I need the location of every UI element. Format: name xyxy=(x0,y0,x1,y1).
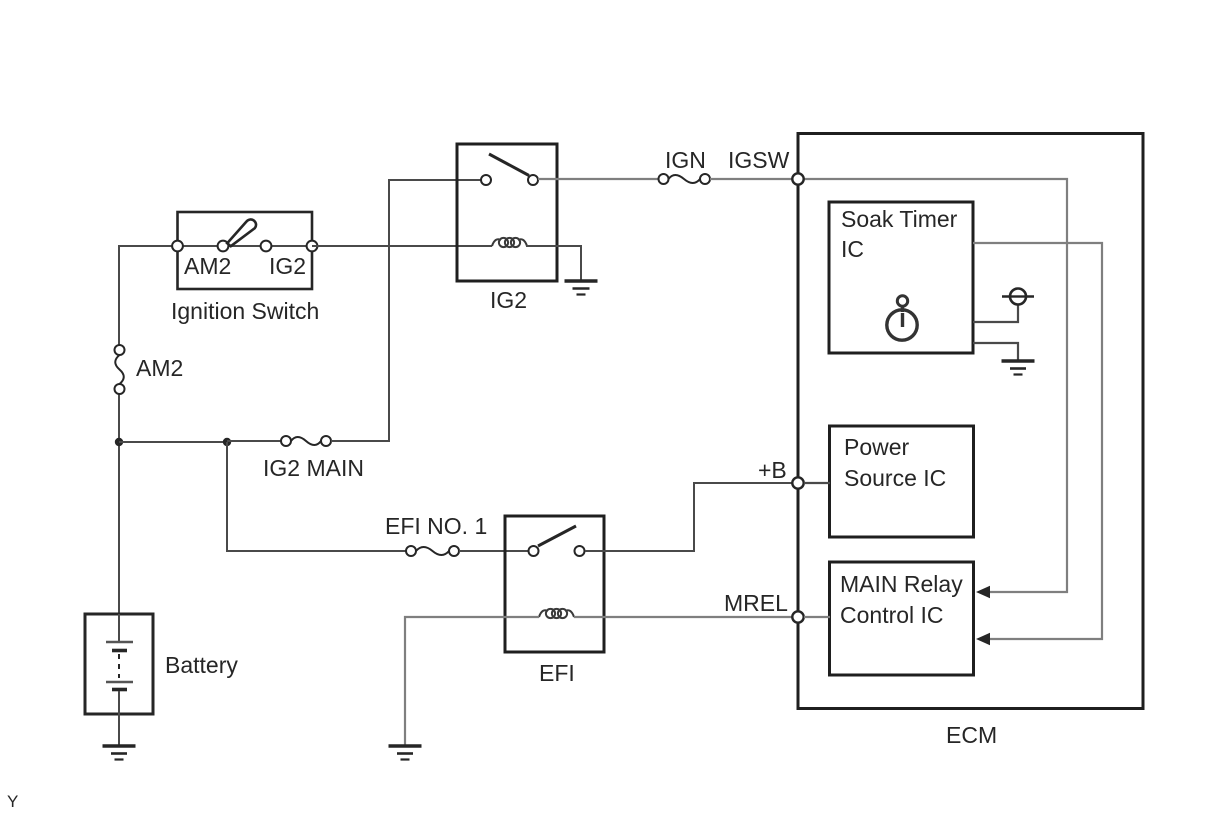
ignition switch SW1 box xyxy=(178,212,313,289)
svg-text:IG2 MAIN: IG2 MAIN xyxy=(263,455,364,481)
wire relay EFI coil to node MREL xyxy=(574,616,792,618)
svg-text:Ignition Switch: Ignition Switch xyxy=(171,298,319,324)
relay IG2 blade xyxy=(489,154,529,176)
ground for relay IG2 coil xyxy=(565,281,598,295)
timer icon inside soak timer IC xyxy=(887,296,917,340)
svg-text:MREL: MREL xyxy=(724,590,788,616)
relay EFI contact right circle xyxy=(575,546,585,556)
svg-text:MAIN Relay: MAIN Relay xyxy=(840,571,963,597)
wire relay IG2 coil to ground xyxy=(526,246,581,281)
svg-text:EFI: EFI xyxy=(539,660,575,686)
svg-text:Battery: Battery xyxy=(165,652,238,678)
svg-text:+B: +B xyxy=(758,457,787,483)
terminal circle right edge xyxy=(307,241,318,252)
relay EFI coil xyxy=(539,609,574,618)
relay EFI blade xyxy=(538,526,576,546)
svg-text:AM2: AM2 xyxy=(184,253,231,279)
relay IG2 box xyxy=(457,144,557,281)
wire soak timer pin to terminal circle symbol xyxy=(973,305,1018,322)
relay EFI contact left circle xyxy=(529,546,539,556)
ECM box xyxy=(798,134,1143,709)
wire junction B to fuse IG2 MAIN xyxy=(227,440,281,442)
ground at relay EFI coil xyxy=(389,746,422,760)
wire fuse EFI NO. 1 to relay EFI contact xyxy=(459,550,528,552)
battery BAT1 box xyxy=(85,614,153,714)
terminal circle symbol at soak timer xyxy=(1002,289,1034,305)
wire node IGSW to MAIN relay control IC (right loop) xyxy=(798,179,1067,592)
svg-text:EFI NO. 1: EFI NO. 1 xyxy=(385,513,487,539)
wire fuse IG2 MAIN to relay IG2 contact (up at x=389) xyxy=(331,180,481,441)
soak timer IC box xyxy=(829,202,973,353)
svg-text:IC: IC xyxy=(841,236,864,262)
svg-text:Y: Y xyxy=(7,792,18,811)
wire soak timer pin to ground xyxy=(973,343,1018,361)
battery cell symbol xyxy=(106,614,133,714)
wire battery to ground xyxy=(118,714,120,746)
wire inside ignition switch xyxy=(178,245,313,247)
wire node MREL to MAIN relay control IC xyxy=(804,616,830,618)
node +B circle xyxy=(792,477,803,488)
svg-text:IGSW: IGSW xyxy=(728,147,790,173)
wire junction A to junction B (horizontal) xyxy=(119,441,227,443)
wire ignition switch to relay IG2 coil xyxy=(312,245,492,247)
ground below battery xyxy=(103,746,136,760)
ground at soak timer xyxy=(1002,361,1035,375)
relay IG2 contact left circle xyxy=(481,175,491,185)
MAIN relay control IC box xyxy=(830,562,974,675)
svg-text:IGN: IGN xyxy=(665,147,706,173)
junction B dot xyxy=(223,438,231,446)
relay IG2 contact right circle xyxy=(528,175,538,185)
fuse EFI NO. 1 xyxy=(406,546,459,556)
fuse IG2 MAIN xyxy=(281,436,331,446)
terminal IG2 circle xyxy=(261,241,272,252)
relay IG2 coil xyxy=(492,238,527,247)
node IGSW circle xyxy=(792,173,803,184)
svg-text:IG2: IG2 xyxy=(490,287,527,313)
wire junction B down and right to fuse EFI NO. 1 xyxy=(227,442,406,551)
svg-text:Soak Timer: Soak Timer xyxy=(841,206,958,232)
relay EFI box xyxy=(505,516,604,652)
svg-text:Power: Power xyxy=(844,434,910,460)
wire junction A up to fuse AM2 bottom xyxy=(118,393,120,442)
node MREL circle xyxy=(792,611,803,622)
ignition switch lever xyxy=(227,219,256,246)
svg-text:ECM: ECM xyxy=(946,722,997,748)
wire soak timer output to MAIN relay control IC (right loop) xyxy=(973,243,1102,639)
wire fuse AM2 top up and right to ignition switch xyxy=(119,246,174,346)
svg-text:Source IC: Source IC xyxy=(844,465,946,491)
svg-text:IG2: IG2 xyxy=(269,253,306,279)
terminal circle left edge xyxy=(172,241,183,252)
svg-text:AM2: AM2 xyxy=(136,355,183,381)
power source IC box xyxy=(830,426,974,537)
arrow into MAIN relay control IC (upper) xyxy=(976,586,990,598)
fuse AM2 xyxy=(115,345,125,394)
terminal AM2 circle xyxy=(218,241,229,252)
arrow into MAIN relay control IC (lower) xyxy=(976,633,990,645)
wire relay EFI coil left to ground xyxy=(405,617,539,746)
junction A dot xyxy=(115,438,123,446)
wire fuse IGN to node IGSW xyxy=(710,178,792,180)
svg-text:Control IC: Control IC xyxy=(840,602,944,628)
wire battery to junction A (vertical) xyxy=(118,442,120,614)
fuse IGN xyxy=(659,174,711,184)
wire relay IG2 contact to fuse IGN xyxy=(538,178,659,180)
wire relay EFI contact to node +B xyxy=(585,483,792,551)
wire node +B to power source IC xyxy=(804,482,830,484)
